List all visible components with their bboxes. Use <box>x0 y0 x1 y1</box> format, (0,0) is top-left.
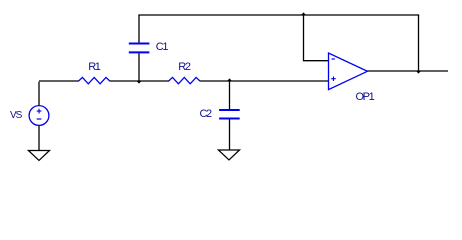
wire: R2 right to op-amp + input <box>200 80 329 82</box>
voltage source VS (circle) <box>29 106 49 126</box>
wire: R1 right to R2 left <box>110 80 169 82</box>
wire: output riser (right drop) <box>418 15 420 71</box>
wire: C1 upper lead <box>138 15 140 43</box>
capacitor C1 plates <box>129 44 150 53</box>
capacitor C2 plates <box>219 110 240 119</box>
ground (below C2) <box>218 150 239 160</box>
wire: op-amp output <box>367 70 448 72</box>
junction feedback top (x=303.5,y=15) <box>301 12 306 15</box>
VS plus sign <box>37 109 42 114</box>
ground (below VS) <box>28 151 49 161</box>
wire: top feedback run (y=15) <box>139 14 419 17</box>
wire: feedback drop to inverting input <box>304 15 329 61</box>
label OP1 <box>356 92 374 103</box>
label C2 <box>200 109 211 120</box>
label R1 <box>88 62 99 73</box>
label VS <box>10 110 21 121</box>
resistor R2 (zigzag) <box>169 77 200 83</box>
label C1 <box>156 42 167 53</box>
wire: C2 lower lead to ground <box>229 118 231 150</box>
junction output (x=418.5,y=71) <box>416 71 421 74</box>
wire: C1 lower lead <box>138 53 140 81</box>
wire: VS top lead <box>38 82 40 106</box>
wire: node B drop to C2 <box>229 81 231 111</box>
wire: VS to R1 left (main net, y=81) <box>39 80 79 82</box>
op-amp non-inverting pin mark <box>331 77 336 82</box>
op-amp inverting pin mark <box>332 58 335 60</box>
resistor R1 (zigzag) <box>79 77 110 83</box>
junction node B (C2 tap on main net) <box>227 78 232 81</box>
op-amp U1 triangle <box>329 53 368 90</box>
junction node A (C1 tap on main net) <box>136 81 141 84</box>
wire: VS bottom lead to ground <box>38 125 40 150</box>
label R2 <box>178 62 189 73</box>
VS minus sign <box>37 118 42 120</box>
